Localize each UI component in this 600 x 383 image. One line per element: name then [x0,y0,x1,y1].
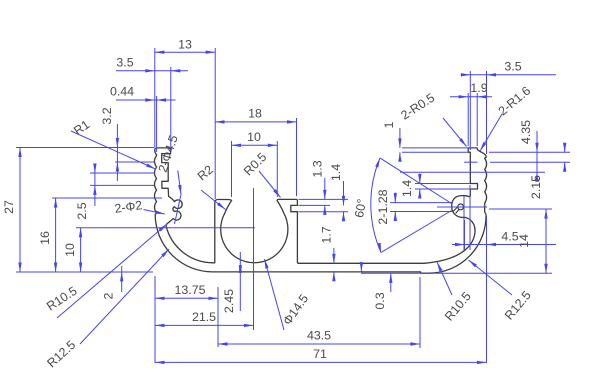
aluminium profile outline [155,148,487,273]
leader 2-phi4.5 [178,171,181,195]
dim 1.9 [467,93,469,146]
ext lines bottom [154,276,156,363]
dim 2.15 [464,161,478,163]
svg-text:0.3: 0.3 [373,292,387,309]
dim 3.5 right [469,71,471,150]
leader R1 [71,131,156,169]
svg-text:3.2: 3.2 [100,107,114,124]
svg-text:2.5: 2.5 [75,202,89,219]
svg-text:1.9: 1.9 [470,81,487,95]
ext lines top-left [154,48,156,147]
leader R0.5 [259,171,281,198]
svg-text:2.15: 2.15 [529,175,543,199]
svg-text:3.5: 3.5 [504,60,521,74]
svg-text:2: 2 [102,292,116,299]
dim 2.45 [239,252,241,311]
svg-text:1.7: 1.7 [320,226,334,243]
keyhole small circle phi1.28 [458,204,464,210]
dim 0.3 [360,262,363,272]
ext vert keyhole [463,196,465,250]
dim 4.5 [464,220,466,250]
dim 3.5 (left cap) [116,70,188,72]
svg-text:43.5: 43.5 [307,329,331,343]
dim 13 [155,51,215,53]
svg-text:14: 14 [517,234,531,248]
svg-text:3.5: 3.5 [116,56,133,70]
svg-text:1.3: 1.3 [311,160,325,177]
svg-text:13.75: 13.75 [174,283,205,297]
svg-text:10: 10 [63,243,77,257]
dim 18 [296,118,298,196]
svg-text:1.4: 1.4 [329,164,343,181]
dim 16 [52,197,162,199]
dim 43.5 [218,343,420,345]
keyhole slot opening [453,207,459,213]
svg-text:1: 1 [382,121,396,128]
dim 1.3 [324,178,326,199]
svg-text:2-1.28: 2-1.28 [376,189,390,224]
dim 4.35 [489,151,570,153]
leader 2-R0.5 [443,118,467,147]
leader 2-R1.6 [480,114,502,151]
dim 1.4 [343,181,345,205]
leader R12.5 right [469,260,513,295]
keyhole centerline [437,206,487,208]
leader R12.5 left [80,249,169,344]
dim 1.7 [333,248,335,263]
dim 21.5 [155,324,254,326]
svg-text:1.4: 1.4 [400,180,414,197]
dim 27 [16,147,155,149]
svg-text:18: 18 [248,107,262,121]
dim 0.44 [116,99,176,101]
svg-text:27: 27 [2,200,16,214]
dim 14 [489,208,552,210]
ext lines tulip right [299,198,349,200]
leader R10.5 right [437,262,452,295]
leader R2 [201,190,226,210]
dim 10 left [76,227,255,229]
chain dim at x=95 [90,172,155,174]
svg-text:10: 10 [247,130,261,144]
svg-text:16: 16 [38,231,52,245]
dim 3.2 [116,124,118,181]
svg-text:21.5: 21.5 [192,310,216,324]
svg-text:13: 13 [178,38,192,52]
dim 13.75 [155,297,218,299]
dim 1 [402,147,477,149]
60 deg angular dim [380,158,452,204]
svg-text:71: 71 [313,347,327,361]
dim 71 [155,361,487,363]
dim 2 (foot thickness) [121,266,123,292]
leader 2-phi2 [144,210,165,215]
dim 10 (slot opening) [231,141,233,197]
dim 2-1.28 [390,202,452,204]
svg-text:0.44: 0.44 [110,85,134,99]
leader phi14.5 [265,259,285,330]
leader R10.5 left [57,224,167,318]
dim 1.4 right (side slot) [415,183,470,185]
svg-text:4.35: 4.35 [519,120,533,144]
svg-text:2.45: 2.45 [222,289,236,313]
